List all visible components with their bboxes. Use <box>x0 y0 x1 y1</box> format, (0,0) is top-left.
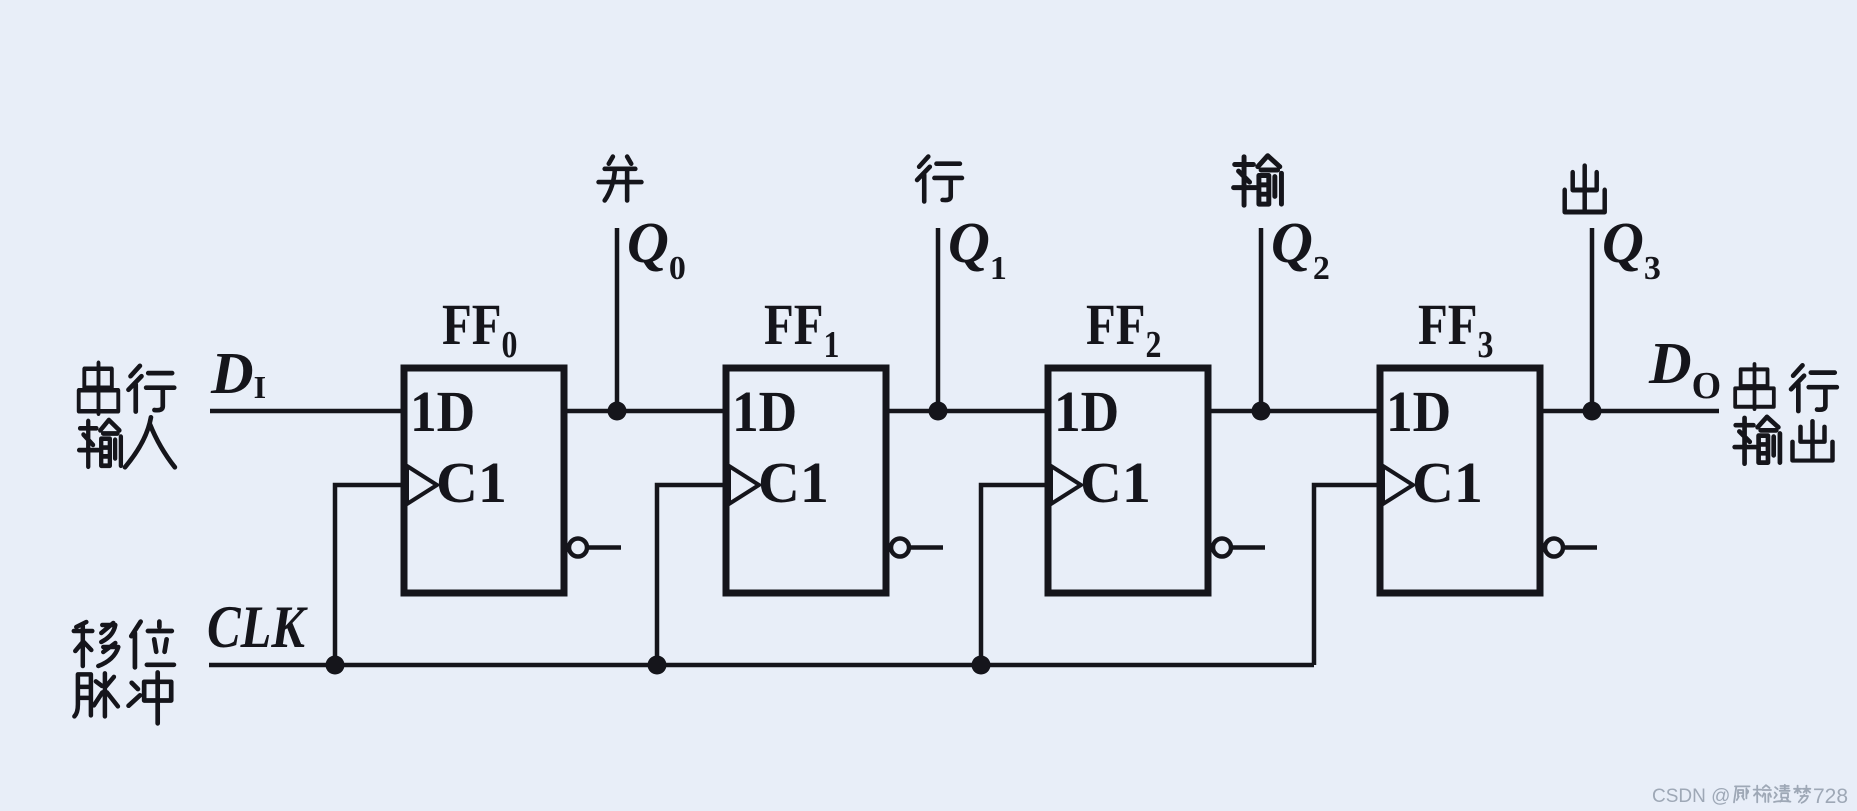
node: junction Q1 <box>929 402 948 421</box>
watermark CJK char lang <box>1734 786 1750 802</box>
net label D_O <box>1648 330 1721 407</box>
node: junction Q3 <box>1583 402 1602 421</box>
svg-text:C1: C1 <box>1080 450 1151 515</box>
net label Q1 <box>948 210 1007 287</box>
wire: Q3 vertical tap <box>1590 228 1595 411</box>
label CJK: top parallel-output char 2 (xing) <box>917 157 962 202</box>
wire: FF0 Q to FF1 1D <box>564 409 726 414</box>
flip-flop FF2 box <box>1048 368 1208 593</box>
pin label 1D of FF1 <box>732 380 797 445</box>
label CJK: serial-input char shu <box>79 420 121 467</box>
label CJK: top parallel-output char 4 (chu) <box>1565 166 1605 212</box>
svg-text:728: 728 <box>1813 785 1848 808</box>
svg-text:C1: C1 <box>436 450 507 515</box>
node: junction CLK-FF0 <box>326 656 345 675</box>
net label Q0 <box>627 210 686 287</box>
node: junction CLK-FF2 <box>972 656 991 675</box>
clock triangle of FF2 <box>1051 466 1081 504</box>
label CJK: top parallel-output char 3 (shu) <box>1234 156 1282 206</box>
flip-flop FF1 box <box>726 368 886 593</box>
svg-text:C1: C1 <box>758 450 829 515</box>
node: junction Q0 <box>608 402 627 421</box>
svg-text:1D: 1D <box>410 380 475 445</box>
inverted output bubble of FF0 <box>569 539 621 557</box>
pin label 1D of FF3 <box>1386 380 1451 445</box>
clock triangle of FF3 <box>1383 466 1413 504</box>
wire: clock riser to FF0 C1 <box>335 485 404 665</box>
label CJK: serial-input char ru <box>125 417 175 467</box>
label FF1 <box>764 292 839 366</box>
wire: clock riser to FF2 C1 <box>981 485 1048 665</box>
flip-flop FF3 box <box>1380 368 1540 593</box>
wire: clock riser to FF3 C1 <box>1314 485 1380 665</box>
clock triangle of FF1 <box>729 466 759 504</box>
flip-flop FF0 box <box>404 368 564 593</box>
watermark digits 728 <box>1813 785 1848 808</box>
pin label 1D of FF0 <box>410 380 475 445</box>
pin label C1 of FF2 <box>1080 450 1151 515</box>
label CJK: top parallel-output char 1 (bing) <box>599 157 642 201</box>
clock triangle of FF0 <box>407 466 437 504</box>
inverted output bubble of FF2 <box>1213 539 1265 557</box>
net label Q3 <box>1602 210 1661 287</box>
watermark CJK char meng <box>1794 786 1810 803</box>
svg-text:C1: C1 <box>1412 450 1483 515</box>
label CJK: serial-output char chuan <box>1735 364 1774 409</box>
svg-text:1D: 1D <box>1386 380 1451 445</box>
net label CLK <box>207 594 309 660</box>
label CJK: serial-output char chu <box>1793 421 1833 460</box>
node: junction CLK-FF1 <box>648 656 667 675</box>
label CJK: serial-output char shu <box>1735 417 1780 464</box>
label CJK: shift-pulse char yi <box>74 622 119 666</box>
inverted output bubble of FF1 <box>891 539 943 557</box>
net label Q2 <box>1271 210 1330 287</box>
node: junction Q2 <box>1252 402 1271 421</box>
label FF2 <box>1086 292 1161 366</box>
wire: FF3 Q to serial output D_O <box>1540 409 1719 414</box>
label CJK: shift-pulse char mai <box>74 673 118 716</box>
watermark CJK char yi2 <box>1774 785 1790 802</box>
label CJK: serial-input char xing <box>128 366 174 412</box>
pin label 1D of FF2 <box>1054 380 1119 445</box>
label CJK: serial-output char xing <box>1791 365 1837 411</box>
wire: Q0 vertical tap <box>615 228 620 411</box>
label CJK: shift-pulse char wei <box>131 622 174 668</box>
net label D_I <box>210 340 266 406</box>
wire: FF2 Q to FF3 1D <box>1208 409 1380 414</box>
svg-text:CSDN @: CSDN @ <box>1652 786 1730 807</box>
svg-text:CLK: CLK <box>207 594 309 660</box>
svg-text:1D: 1D <box>732 380 797 445</box>
pin label C1 of FF0 <box>436 450 507 515</box>
label CJK: serial-input char chuan <box>79 363 119 414</box>
watermark CSDN <box>1652 786 1730 807</box>
wire: Q2 vertical tap <box>1259 228 1264 411</box>
wire: CLK bus horizontal <box>209 663 1314 668</box>
label FF3 <box>1418 292 1493 366</box>
pin label C1 of FF1 <box>758 450 829 515</box>
label CJK: shift-pulse char chong <box>129 672 172 723</box>
wire: FF1 Q to FF2 1D <box>886 409 1048 414</box>
inverted output bubble of FF3 <box>1545 539 1597 557</box>
svg-text:1D: 1D <box>1054 380 1119 445</box>
wire: clock riser to FF1 C1 <box>657 485 726 665</box>
wire: Q1 vertical tap <box>936 228 941 411</box>
wire: serial input D_I to FF0 1D <box>210 409 404 414</box>
watermark CJK char qiao <box>1754 785 1771 802</box>
label FF0 <box>442 292 517 366</box>
pin label C1 of FF3 <box>1412 450 1483 515</box>
